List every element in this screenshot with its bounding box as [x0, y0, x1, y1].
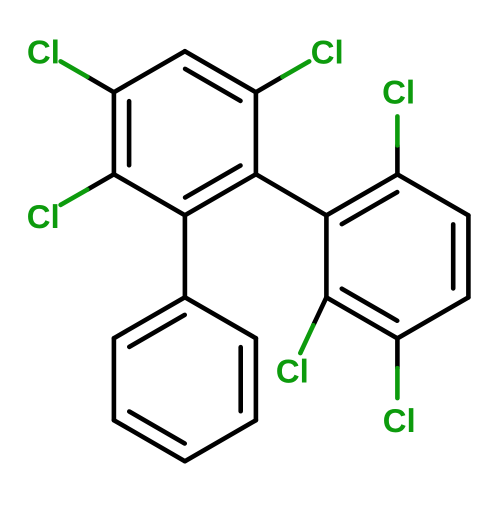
bond C6(ring A) - Cl1 — [87, 77, 114, 92]
ring B bond C1-C6 inner line — [342, 192, 397, 224]
bond C5(ring A) - Cl2 — [87, 174, 114, 189]
ring C bond C2-C1 — [185, 297, 256, 338]
ring A bond C6-C1 — [114, 51, 185, 92]
ring C bond C6-C5 — [112, 338, 117, 420]
bond C2(ring A) - Cl3 — [256, 77, 283, 92]
biphenyl bond ring A - ring B — [256, 174, 327, 215]
ring A bond C1-C2 (double, outer line) — [185, 51, 256, 92]
chlorine label Cl1 — [28, 39, 57, 63]
ring C bond C5-C4 inner line — [129, 412, 184, 444]
ring A bond C5-C6 inner line — [127, 101, 132, 165]
bond C4(ring B) - Cl6 — [395, 338, 400, 368]
ring B bond C3-C2 (double, outer line) — [466, 215, 471, 297]
ring C bond C4-C3 — [185, 420, 256, 461]
chlorine label Cl6 — [384, 408, 413, 432]
ring A bond C5-C6 (double, outer line) — [112, 92, 117, 174]
ring A bond C3-C4 inner line — [185, 166, 240, 198]
ring B bond C5-C4 (double, outer line) — [326, 297, 397, 338]
chlorine label Cl3 — [312, 40, 341, 64]
ring C bond C3-C2 (double, outer line) — [254, 338, 259, 420]
ring C bond C1-C6 inner line — [129, 315, 184, 347]
bond C5(ring B) - Cl5 — [313, 297, 326, 325]
chlorine label Cl4 — [383, 80, 412, 104]
ring B bond C3-C2 inner line — [451, 224, 456, 288]
ring B bond C6-C5 — [324, 215, 329, 297]
ring B bond C5-C4 inner line — [342, 289, 397, 321]
biphenyl bond ring A - ring C — [183, 215, 188, 297]
ring A bond C3-C4 (double, outer line) — [185, 174, 256, 215]
ring A bond C4-C5 — [114, 174, 185, 215]
ring B bond C1-C6 (double, outer line) — [326, 174, 397, 215]
ring C bond C1-C6 (double, outer line) — [114, 297, 185, 338]
ring B bond C4-C3 — [397, 297, 468, 338]
ring C bond C3-C2 inner line — [238, 347, 243, 411]
chlorine label Cl5 — [277, 359, 306, 383]
bond C1(ring B) - Cl4 — [395, 145, 400, 174]
chlorine label Cl2 — [28, 204, 57, 228]
ring A bond C1-C2 inner line — [185, 69, 240, 101]
ring B bond C2-C1 — [397, 174, 468, 215]
ring A bond C2-C3 — [254, 92, 259, 174]
ring C bond C5-C4 (double, outer line) — [114, 420, 185, 461]
